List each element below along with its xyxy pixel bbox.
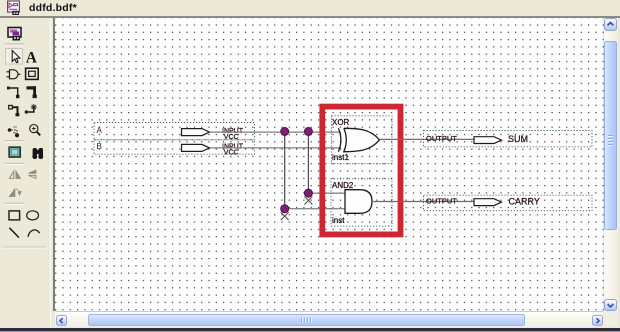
junction dot on wire A at x308: [304, 127, 312, 135]
title bar: [0, 0, 620, 16]
wire B to XOR: [209, 147, 341, 149]
svg-text:XOR: XOR: [332, 118, 350, 127]
full-screen (teal) tool: [9, 147, 20, 157]
shared edge between A and B boxes: [94, 138, 254, 140]
vertical wire tap 2: [307, 132, 309, 198]
canvas: [53, 18, 55, 311]
conduit tool: [9, 105, 20, 116]
bottom window edge: [0, 328, 620, 331]
auto-connect tool: [25, 104, 37, 114]
selection tool (pressed): [6, 49, 23, 65]
ellipse tool: [27, 211, 39, 220]
svg-text:CARRY: CARRY: [508, 196, 539, 206]
output pin SUM symbol: [474, 136, 502, 143]
red highlight rectangle: [322, 106, 400, 234]
rotate tool (disabled): [9, 189, 21, 196]
flip-horizontal tool (disabled): [9, 171, 20, 178]
zoom tool: [30, 125, 41, 136]
node tool: [7, 87, 19, 99]
file icon: [0, 0, 30, 16]
svg-text:VCC: VCC: [223, 149, 238, 156]
output pin CARRY symbol: [474, 198, 502, 205]
separator: [5, 162, 25, 164]
wire XOR output to SUM: [379, 138, 474, 140]
input pin A selection box: [94, 122, 255, 139]
v down button: [604, 299, 617, 312]
flip-vertical tool (disabled): [29, 170, 36, 178]
v thumb: [604, 41, 617, 230]
arc tool: [28, 230, 40, 237]
input pin A symbol: [181, 128, 209, 135]
TOOLBAR ICONS: [0, 0, 53, 260]
wire to AND input top: [308, 192, 345, 194]
XOR selection box: [331, 116, 392, 164]
find tool (binoculars): [32, 148, 43, 159]
svg-text:SUM: SUM: [508, 134, 528, 144]
right edge strip: [618, 18, 620, 328]
svg-text:VCC: VCC: [223, 134, 238, 141]
X mark below tap 1: [280, 212, 288, 220]
h right button: [592, 315, 603, 326]
groove under title: [0, 16, 620, 18]
symbol tool: [7, 70, 21, 79]
junction dot at AND bottom input: [280, 204, 288, 212]
h left button: [56, 315, 67, 326]
output pin CARRY selection box: [423, 195, 592, 211]
input pin B selection box: [94, 139, 255, 154]
partial-line tool: [8, 127, 19, 137]
H SCROLLBAR: [55, 313, 604, 327]
AND selection box: [331, 179, 392, 226]
wire A to XOR: [209, 131, 341, 133]
separator: [5, 202, 25, 204]
junction dot on wire A at x284: [280, 127, 288, 135]
junction dot at AND top input: [304, 189, 312, 197]
title text: [29, 2, 77, 14]
X mark below tap 2: [304, 196, 312, 204]
vertical wire tap 1: [283, 132, 285, 213]
wire to AND input bottom: [284, 207, 344, 209]
svg-text:OUTPUT: OUTPUT: [426, 196, 457, 205]
bus tool: [27, 86, 37, 98]
svg-text:OUTPUT: OUTPUT: [426, 134, 457, 143]
toolbar background: [0, 18, 53, 328]
output pin SUM selection box: [423, 130, 592, 146]
AND2 gate: [345, 189, 372, 213]
separator: [5, 43, 25, 45]
input pin B symbol: [181, 144, 209, 151]
svg-text:inst: inst: [332, 216, 345, 225]
toolbar bottom separator: [3, 246, 46, 248]
SCHEMATIC CANVAS: [55, 18, 604, 311]
svg-text:B: B: [96, 142, 101, 151]
v up button: [604, 18, 617, 31]
separator: [5, 140, 25, 142]
svg-text:AND2: AND2: [332, 181, 354, 190]
svg-text:A: A: [96, 126, 102, 135]
h thumb: [88, 314, 525, 326]
detach window tool: [8, 28, 21, 41]
svg-text:A: A: [26, 49, 38, 66]
V SCROLLBAR: [604, 18, 618, 311]
XOR gate: [338, 128, 379, 151]
line tool: [9, 228, 19, 238]
wire AND output to CARRY: [372, 200, 474, 202]
svg-text:inst1: inst1: [332, 153, 349, 162]
block tool: [26, 68, 39, 79]
rectangle tool: [9, 211, 20, 220]
